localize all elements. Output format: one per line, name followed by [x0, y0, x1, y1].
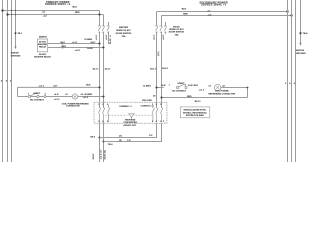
svg-text:2: 2 [152, 121, 154, 123]
stub contact third left [108, 32, 110, 45]
svg-text:4: 4 [156, 120, 158, 123]
svg-text:24.25°: 24.25° [92, 153, 95, 159]
svg-text:GROUND: GROUND [296, 53, 306, 55]
right power bus line 1 [287, 0, 289, 162]
svg-text:DOOR SWITCH: DOOR SWITCH [116, 33, 132, 35]
svg-text:6: 6 [160, 121, 162, 123]
node dot secondary BLK at right bus [286, 10, 288, 12]
tick marks on relay wires [62, 42, 64, 44]
svg-text:INSTALL MECHANICAL: INSTALL MECHANICAL [183, 111, 208, 114]
svg-text:+L1.1: +L1.1 [96, 34, 98, 40]
contact pole 3 right group [160, 108, 162, 123]
stub contact third right [165, 22, 167, 26]
svg-text:(L1): (L1) [158, 51, 160, 55]
text block left door switch [116, 26, 132, 38]
svg-text:RELAY: RELAY [39, 46, 47, 49]
svg-text:BLK: BLK [61, 42, 66, 44]
door switch contact on vR2 [160, 26, 163, 32]
svg-text:CONTACTOR: CONTACTOR [66, 105, 80, 108]
svg-text:+L2: +L2 [43, 16, 48, 18]
node dot relay RED joins vL2 [102, 46, 104, 48]
installation note box [180, 107, 210, 118]
svg-text:MASTER: MASTER [38, 43, 47, 46]
contact pole 3 left group [107, 105, 109, 123]
svg-text:1.5°: 1.5° [127, 140, 131, 142]
left power bus line 2 [7, 0, 9, 162]
svg-text:RED: RED [75, 12, 80, 14]
svg-text:BL1.1: BL1.1 [150, 69, 157, 71]
svg-text:8: 8 [289, 83, 291, 85]
svg-text:+28VDC OUT: +28VDC OUT [123, 125, 137, 127]
svg-text:REVERSING CONTACTOR: REVERSING CONTACTOR [208, 92, 235, 95]
bus pin specks right [285, 83, 296, 85]
svg-text:(7): (7) [119, 135, 122, 137]
svg-text:15A: 15A [122, 35, 126, 38]
coil K3 reversing contactor right [214, 84, 220, 90]
node dot row2 joins vL2 [102, 95, 104, 97]
svg-text:AL1.1: AL1.1 [93, 68, 100, 71]
svg-text:+L1: +L1 [42, 11, 47, 13]
relay K1 box text [38, 40, 47, 48]
wire vR2 RED drop right [161, 16, 163, 26]
wire BLK primary horizontal [3, 10, 100, 12]
wire vL2 RED drop [103, 15, 105, 26]
svg-text:MASTER RELAY: MASTER RELAY [34, 56, 51, 59]
svg-text:BL2.1: BL2.1 [162, 68, 169, 70]
svg-text:REVERSE: REVERSE [125, 119, 136, 121]
door switch contact on stub [107, 26, 110, 32]
node dot TB-5 [98, 136, 100, 138]
svg-text:28VDC: 28VDC [173, 26, 180, 28]
svg-text:EARTH/: EARTH/ [296, 49, 304, 52]
svg-text:14.25°: 14.25° [87, 47, 93, 50]
crossing ticks left bus [11, 10, 12, 11]
svg-text:24.25° (5): 24.25° (5) [104, 150, 107, 160]
svg-text:RED: RED [187, 96, 192, 98]
node dot secondary RED at right bus [290, 14, 292, 16]
left power bus line 3 [11, 0, 13, 162]
wire row1 right (BLK) [157, 87, 164, 89]
contact pin numbers right group [152, 104, 162, 123]
rotated labels bottom outputs [92, 149, 107, 159]
node dot hwire2 corner [102, 140, 104, 142]
switch S1 START NO contact [28, 95, 30, 97]
wire crossover 2 horizontal [104, 123, 162, 141]
interlock triangle symbol [129, 114, 135, 117]
svg-text:28 VAC: 28 VAC [39, 40, 47, 43]
svg-text:+L2.1: +L2.1 [75, 50, 81, 52]
svg-text:#1: #1 [209, 86, 212, 88]
node TB-1 junction dot [15, 32, 17, 34]
svg-text:+L1.1: +L1.1 [154, 34, 156, 40]
wire crossover 1 horizontal [100, 123, 157, 137]
svg-text:MODE OF ALT: MODE OF ALT [116, 29, 131, 32]
node dot at bus line1 / BLK [1, 9, 3, 11]
coil K2 reversing contactor left [72, 94, 77, 99]
node dot loop corner [247, 87, 249, 89]
wire vR1 BLK drop right [156, 12, 158, 26]
svg-text:23.5° BLK: 23.5° BLK [188, 85, 198, 87]
svg-text:BLK: BLK [73, 6, 78, 8]
left power bus line 4 (to ground) [15, 0, 17, 47]
svg-text:+L1.2 1.5°: +L1.2 1.5° [100, 149, 102, 159]
text block right door switch [169, 26, 185, 36]
node dot vL1/RED crossing [98, 13, 100, 15]
svg-text:(5): (5) [119, 140, 122, 142]
svg-text:SOURCE 28VAC +1: SOURCE 28VAC +1 [45, 3, 71, 6]
svg-text:EARTH/: EARTH/ [11, 51, 19, 54]
switch S2 START NC contact [177, 86, 179, 88]
svg-text:+L2.1: +L2.1 [163, 34, 165, 40]
svg-text:AL2.1: AL2.1 [105, 68, 112, 71]
svg-text:TB-4: TB-4 [303, 32, 309, 35]
wire converter output 2 down [103, 122, 105, 162]
wire row1 left (BLK) [18, 86, 100, 88]
ground arrow right [299, 43, 301, 46]
svg-text:MODE OF ALT: MODE OF ALT [169, 28, 184, 31]
svg-text:2: 2 [285, 83, 287, 85]
bus pin specks left [1, 80, 12, 83]
svg-text:BLK: BLK [86, 84, 91, 86]
svg-text:CM1-CM2: CM1-CM2 [142, 100, 153, 102]
svg-text:#1: #1 [65, 94, 68, 96]
svg-text:START: START [177, 82, 185, 85]
rotated wire-name columns right [154, 34, 166, 56]
wire RED secondary horizontal [162, 15, 292, 17]
door switch contact on vL1 [98, 26, 101, 32]
svg-text:1.5°: 1.5° [149, 135, 153, 137]
svg-text:+L1.2: +L1.2 [199, 90, 205, 92]
door switch contact on vR1 [155, 26, 158, 32]
svg-text:+L2.1: +L2.1 [106, 34, 108, 40]
svg-text:4.5°: 4.5° [54, 84, 58, 87]
contact pole 1 right group [152, 105, 154, 123]
door switch contact on vL2 [102, 26, 105, 32]
svg-text:BLK: BLK [182, 9, 187, 11]
wire relay BLK to vL1 [48, 43, 100, 45]
mechanical link dashed line [106, 114, 128, 116]
relay K1 caption below [34, 53, 51, 59]
svg-text:TB-6: TB-6 [108, 144, 114, 146]
tick wire2 crossing line1 right [287, 15, 288, 16]
svg-text:14.5°: 14.5° [90, 41, 95, 44]
svg-text:INTERLOCK BAIL: INTERLOCK BAIL [186, 114, 205, 117]
contact pole 1 left group [98, 108, 100, 123]
svg-text:12 AWG: 12 AWG [84, 38, 92, 41]
node dot relay BLK joins vL1 [98, 42, 100, 44]
svg-text:RED: RED [61, 46, 66, 48]
door switch contact on right stub [164, 26, 167, 32]
wire converter output 1 down [99, 122, 101, 162]
svg-text:MASTER: MASTER [119, 26, 128, 29]
svg-text:26: 26 [153, 96, 156, 98]
svg-text:SOURCE 28VAC +1: SOURCE 28VAC +1 [201, 3, 227, 6]
svg-text:2: 2 [45, 94, 47, 96]
svg-text:INSTALLATION NOTE:: INSTALLATION NOTE: [184, 109, 207, 112]
wire relay RED to vL2 [48, 47, 104, 49]
svg-text:+L1.2: +L1.2 [83, 97, 89, 99]
contactor CM1-CM2 dashed box [94, 102, 167, 123]
svg-text:+L7.1: +L7.1 [39, 85, 45, 87]
svg-text:42 AWG: 42 AWG [84, 93, 92, 96]
svg-text:+L1.2: +L1.2 [54, 99, 60, 101]
ground arrow left [14, 46, 16, 49]
node TB-4 junction dot [299, 32, 301, 34]
svg-text:14.5°: 14.5° [161, 84, 166, 87]
wire RED primary horizontal [8, 14, 104, 16]
wire row2 left through START switch [18, 96, 104, 98]
svg-text:DOOR SWITCH: DOOR SWITCH [169, 32, 185, 34]
wire row2 right (RED return) [162, 97, 248, 99]
contact pole 2 left group [102, 108, 104, 123]
svg-text:START: START [33, 92, 41, 95]
node dot row1 at vR1 [155, 86, 157, 88]
rotated wire-name columns left [96, 34, 112, 44]
svg-text:24.25° +1: 24.25° +1 [109, 34, 112, 44]
relay K1 box [38, 39, 48, 52]
svg-text:NO CONTACT: NO CONTACT [30, 99, 45, 102]
svg-text:+L1.1: +L1.1 [72, 42, 78, 44]
contact pole 2 right group [156, 108, 158, 123]
wire loop right end vertical [247, 88, 249, 98]
svg-text:+4.5°: +4.5° [54, 93, 59, 96]
wire BLK secondary horizontal [157, 11, 288, 13]
node dot row1 joins vL1 [98, 86, 100, 88]
wire vL1 BLK drop [99, 11, 101, 26]
svg-text:BL2.1: BL2.1 [195, 101, 202, 103]
right power bus line 2 [291, 0, 293, 162]
left power bus line 1 [2, 0, 4, 162]
svg-text:DORMAT +1: DORMAT +1 [119, 105, 132, 108]
svg-text:TB-5: TB-5 [90, 137, 96, 139]
svg-text:RED: RED [183, 14, 188, 16]
contact pin numbers left group [98, 104, 109, 123]
svg-text:12 AWG: 12 AWG [143, 84, 151, 87]
node dot at bus line2 / RED [6, 13, 8, 15]
svg-text:3: 3 [156, 104, 158, 106]
svg-text:TB-1: TB-1 [18, 33, 24, 35]
right power bus line 3 [295, 0, 297, 162]
svg-text:1: 1 [169, 85, 171, 87]
svg-text:15A: 15A [175, 33, 179, 36]
svg-text:[MART]: [MART] [39, 36, 47, 39]
start switch feeder vertical left [17, 87, 19, 96]
right power bus line 4 (to ground) [300, 0, 302, 44]
node dot row2 at vR2 [160, 96, 162, 98]
svg-text:GROUND: GROUND [11, 56, 21, 58]
svg-text:NC CONTACT: NC CONTACT [172, 89, 187, 92]
